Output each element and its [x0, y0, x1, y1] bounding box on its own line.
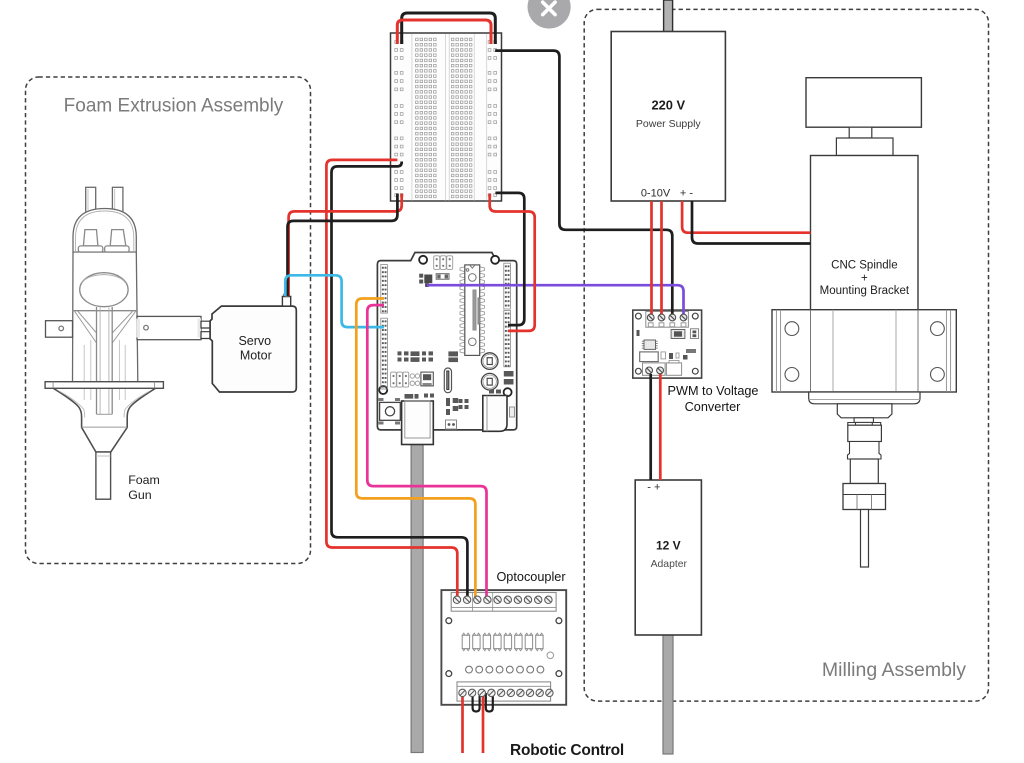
- svg-text:Mounting Bracket: Mounting Bracket: [820, 285, 910, 297]
- optocoupler bottom terminal screws: [459, 689, 553, 696]
- wire purple arduino PWM output to converter: [427, 285, 684, 318]
- svg-text:CNC Spindle: CNC Spindle: [831, 260, 897, 272]
- linkage arm from foam gun to servo: [137, 316, 202, 339]
- mains power cable into 220V supply: [664, 0, 673, 33]
- CNC spindle and mounting bracket: [772, 78, 956, 567]
- wire blue servo signal to arduino: [285, 275, 384, 327]
- svg-text:Power Supply: Power Supply: [636, 118, 702, 130]
- wire red breadboard to servo: [289, 194, 402, 297]
- optocoupler top terminal screws: [453, 596, 552, 603]
- svg-text:220 V: 220 V: [651, 98, 685, 113]
- svg-text:0-10V: 0-10V: [641, 187, 671, 199]
- servo motor M1: [201, 294, 296, 392]
- optocoupler board: [441, 590, 566, 705]
- wire black breadboard to optocoupler terminal 2: [332, 162, 468, 601]
- close button: [528, 0, 571, 29]
- svg-text:Gun: Gun: [128, 488, 152, 502]
- svg-text:+ -: + -: [680, 187, 693, 199]
- svg-text:Milling Assembly: Milling Assembly: [822, 659, 966, 681]
- wire red power supply + to spindle: [682, 201, 810, 233]
- milling assembly enclosure: [584, 9, 988, 701]
- svg-text:PWM to Voltage: PWM to Voltage: [668, 384, 759, 398]
- wire red breadboard to arduino right header: [490, 194, 535, 331]
- wire black jumper U1 optocoupler bottom: [473, 693, 480, 712]
- svg-text:12 V: 12 V: [656, 538, 681, 552]
- 220V power supply: [611, 32, 725, 202]
- svg-text:+: +: [861, 272, 868, 284]
- svg-text:Converter: Converter: [685, 400, 741, 414]
- wire black breadboard top jumper: [402, 13, 496, 44]
- svg-text:Foam Extrusion Assembly: Foam Extrusion Assembly: [64, 96, 284, 117]
- wire black breadboard to servo: [288, 194, 398, 297]
- USB cable from Arduino to robotic control: [411, 440, 423, 753]
- DC cable from 12V adapter: [663, 633, 673, 754]
- svg-text:Optocoupler: Optocoupler: [496, 570, 566, 584]
- wire red breadboard to optocoupler terminal 1: [326, 160, 457, 600]
- wire red power supply 0-10V to converter A: [650, 201, 653, 318]
- svg-text:- +: - +: [647, 482, 660, 494]
- 12V adapter: [635, 480, 701, 635]
- wire red optocoupler output B: [482, 694, 485, 753]
- wire magenta arduino to optocoupler terminal 4: [367, 305, 486, 600]
- wire black breadboard to PWM converter: [495, 51, 672, 318]
- wire black PWM converter to 12V adapter: [649, 374, 652, 480]
- breadboard: [391, 33, 502, 201]
- wire red power supply 0-10V to converter B: [660, 201, 663, 318]
- svg-text:Robotic Control: Robotic Control: [510, 742, 624, 759]
- PWM converter terminal screws: [646, 314, 687, 374]
- wire black breadboard to arduino right header: [495, 193, 524, 325]
- wire orange arduino to optocoupler terminal 3: [356, 299, 475, 601]
- svg-text:Foam: Foam: [128, 473, 160, 487]
- arduino U1: [377, 253, 516, 445]
- svg-text:Servo: Servo: [238, 334, 271, 348]
- wire black jumper U2 optocoupler bottom: [486, 693, 493, 712]
- wire red breadboard top jumper: [397, 20, 491, 44]
- wire black power supply - to spindle: [692, 201, 811, 244]
- svg-text:Adapter: Adapter: [651, 559, 688, 570]
- PWM to voltage converter board: [633, 310, 702, 378]
- wire red optocoupler output A: [461, 694, 464, 753]
- foam extrusion assembly enclosure: [26, 77, 311, 564]
- foam gun: [45, 187, 163, 499]
- wire red PWM converter to 12V adapter: [659, 374, 662, 480]
- svg-text:Motor: Motor: [240, 348, 272, 362]
